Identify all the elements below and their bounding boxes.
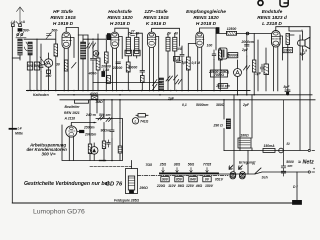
svg-text:240·m: 240·m xyxy=(85,113,96,117)
Gestrichelte text xyxy=(24,181,123,188)
svg-text:H 2018 D: H 2018 D xyxy=(110,21,131,27)
Erregung label xyxy=(239,161,256,165)
svg-text:RENS 1820: RENS 1820 xyxy=(107,15,133,21)
wire xyxy=(135,37,139,53)
minus terminal xyxy=(308,149,314,151)
choke drop xyxy=(247,151,249,175)
Si lamp xyxy=(279,148,284,153)
stage label Endstufe xyxy=(257,9,288,27)
wire xyxy=(264,64,269,75)
blob cap near T4 xyxy=(216,28,219,33)
wire xyxy=(299,52,307,56)
svg-text:Endstufe: Endstufe xyxy=(262,9,283,15)
wire xyxy=(211,70,228,77)
blob resistor xyxy=(107,34,110,40)
wire xyxy=(33,93,49,97)
wire xyxy=(285,90,290,92)
wire xyxy=(176,47,182,51)
antenna cap 500cm xyxy=(18,29,22,32)
wire xyxy=(111,119,113,161)
svg-text:500 cm: 500 cm xyxy=(99,113,111,117)
bus B xyxy=(58,94,312,96)
B+ feed wire xyxy=(216,33,272,35)
wire xyxy=(36,39,38,90)
switch arrow on x74 xyxy=(72,63,77,69)
resistor box horizontal xyxy=(138,114,145,117)
svg-text:Lumophon GD76: Lumophon GD76 xyxy=(33,209,85,216)
blob cap xyxy=(102,72,105,77)
svg-text:50000: 50000 xyxy=(228,54,238,58)
ground mark xyxy=(100,160,106,162)
mains minus line xyxy=(224,150,308,152)
wire xyxy=(260,64,264,72)
svg-text:77Ω5: 77Ω5 xyxy=(203,163,211,167)
cropped heading glyphs xyxy=(258,0,288,7)
border tick xyxy=(10,128,17,130)
wire xyxy=(89,92,99,96)
wire xyxy=(237,60,239,95)
filter caps 5000 xyxy=(281,100,285,176)
gang cap arrow xyxy=(39,57,47,65)
wire xyxy=(40,44,42,90)
wire xyxy=(168,34,175,91)
wire xyxy=(215,84,229,88)
wire xyxy=(241,40,254,52)
resistor xyxy=(186,57,190,70)
wire xyxy=(125,50,132,56)
wire xyxy=(106,118,112,122)
svg-text:7MΩ: 7MΩ xyxy=(95,100,103,104)
output transformer xyxy=(288,30,302,35)
speaker xyxy=(298,37,310,52)
wire xyxy=(48,53,50,90)
lamp line xyxy=(218,172,308,174)
svg-text:L4: L4 xyxy=(18,127,22,131)
caption xyxy=(33,209,85,216)
horizontal resistor w/ label xyxy=(75,100,89,103)
Netz label xyxy=(298,160,314,166)
label 500cm xyxy=(52,29,59,33)
svg-text:8µF: 8µF xyxy=(284,85,291,89)
wire xyxy=(286,142,289,146)
wire xyxy=(287,92,289,94)
svg-text:1000: 1000 xyxy=(284,48,292,52)
svg-text:Si: Si xyxy=(286,142,289,146)
wire xyxy=(174,57,179,61)
svg-text:100: 100 xyxy=(176,47,182,51)
svg-text:500·: 500· xyxy=(52,29,59,33)
wire xyxy=(119,123,121,147)
8uF cap xyxy=(284,85,291,89)
wire xyxy=(247,34,254,95)
wire xyxy=(112,66,123,70)
screen resistor xyxy=(65,60,68,71)
svg-text:38Ω: 38Ω xyxy=(174,163,181,167)
svg-text:RENS 1823 d: RENS 1823 d xyxy=(257,15,288,21)
svg-text:⊥A: ⊥A xyxy=(10,20,16,24)
svg-text:Empfangsgleiche: Empfangsgleiche xyxy=(186,9,226,15)
cap 20000 xyxy=(116,62,120,64)
svg-text:64V: 64V xyxy=(190,178,197,182)
circled driver triangle xyxy=(90,147,98,155)
svg-text:7Ω5: 7Ω5 xyxy=(146,163,153,167)
labels under busC xyxy=(182,103,250,107)
junction dots xyxy=(87,39,98,40)
switch arrows on box xyxy=(98,116,104,120)
junction dots xyxy=(27,90,288,101)
wire xyxy=(89,123,91,161)
cap 27 xyxy=(131,34,135,36)
wire xyxy=(10,20,26,24)
svg-text:5000cm: 5000cm xyxy=(196,103,208,107)
290 ohm resistor branch xyxy=(224,95,234,172)
svg-text:300 V=: 300 V= xyxy=(42,152,56,157)
switch arrows xyxy=(244,66,250,71)
svg-text:380Ω: 380Ω xyxy=(216,103,225,107)
power choke xyxy=(238,138,251,148)
wire xyxy=(56,63,60,67)
wire xyxy=(289,27,303,60)
svg-text:125V: 125V xyxy=(186,184,195,188)
svg-text:180Ω: 180Ω xyxy=(240,134,249,138)
padder xyxy=(39,62,43,72)
wire xyxy=(88,72,98,76)
resistor box xyxy=(253,60,256,72)
coil L2 xyxy=(28,42,32,55)
circled A meter 2 xyxy=(93,51,99,57)
svg-text:2000cm: 2000cm xyxy=(241,40,254,44)
1uF label xyxy=(168,97,175,101)
resistor to bus xyxy=(91,96,98,100)
wire xyxy=(262,176,268,180)
wire xyxy=(139,163,153,190)
wire xyxy=(255,72,262,76)
svg-text:1µF: 1µF xyxy=(255,72,262,76)
boxed label 50000 xyxy=(219,48,227,59)
svg-text:300: 300 xyxy=(27,64,33,68)
svg-text:290Ω: 290Ω xyxy=(139,186,149,190)
fuse xyxy=(263,148,275,152)
resistor 12500 xyxy=(227,31,237,35)
svg-text:Mitte: Mitte xyxy=(15,132,23,136)
grid leak cluster xyxy=(265,48,267,91)
svg-text:4000·: 4000· xyxy=(88,72,98,76)
svg-text:0V: 0V xyxy=(205,178,210,182)
svg-text:051V: 051V xyxy=(215,178,224,182)
wire xyxy=(102,141,105,149)
right verticals xyxy=(300,27,310,150)
wire xyxy=(114,199,139,203)
Bezileiter labels xyxy=(64,105,81,120)
wire xyxy=(127,66,138,70)
wire xyxy=(207,44,213,48)
cap on x141 xyxy=(140,71,144,73)
bottom border xyxy=(12,202,297,204)
svg-text:0,5 M: 0,5 M xyxy=(192,61,201,65)
svg-text:A 2118: A 2118 xyxy=(64,116,76,120)
wire xyxy=(219,48,221,90)
svg-text:290 Ω: 290 Ω xyxy=(213,124,224,128)
wire xyxy=(100,65,111,73)
wire xyxy=(93,143,95,147)
svg-text:7000Ω: 7000Ω xyxy=(214,73,225,77)
svg-text:2µF: 2µF xyxy=(242,103,250,107)
svg-text:RENS 1820: RENS 1820 xyxy=(193,15,219,21)
demod switch arrows xyxy=(176,80,182,85)
tube V1 xyxy=(62,27,78,90)
wire xyxy=(29,55,31,90)
wire xyxy=(287,45,289,91)
svg-text:85V: 85V xyxy=(176,178,183,182)
T3 cathode switch xyxy=(153,80,158,91)
bus C xyxy=(60,99,315,101)
svg-text:Gestrichelte Verbindungen nur: Gestrichelte Verbindungen nur bei xyxy=(24,181,109,187)
svg-text:150V: 150V xyxy=(205,184,214,188)
svg-text:86Ω: 86Ω xyxy=(178,184,185,188)
value boxes xyxy=(27,62,32,70)
wire xyxy=(228,53,238,58)
wire xyxy=(23,28,30,32)
svg-text:2500m: 2500m xyxy=(83,126,95,130)
IF transformer 1 xyxy=(126,37,130,53)
wire xyxy=(19,55,21,60)
wire xyxy=(284,48,292,52)
svg-text:500: 500 xyxy=(34,64,40,68)
wire xyxy=(127,32,139,36)
wire xyxy=(133,50,140,56)
antenna terminal xyxy=(19,24,22,27)
pilot lamps xyxy=(229,166,245,179)
wire xyxy=(240,134,249,138)
input vertical xyxy=(257,40,259,91)
svg-text:741Ω: 741Ω xyxy=(140,119,149,123)
wire xyxy=(92,41,94,90)
svg-text:Erregung]: Erregung] xyxy=(239,161,256,165)
svg-text:400Ω: 400Ω xyxy=(89,92,99,96)
wire xyxy=(47,70,51,73)
tube V6 xyxy=(66,123,96,161)
antenna xyxy=(16,7,24,24)
coupling coil T1 xyxy=(81,42,86,59)
boxed label 2000cm xyxy=(218,84,227,89)
wire xyxy=(227,27,237,31)
dashed feeder xyxy=(90,165,132,167)
avc line xyxy=(93,82,162,84)
wire xyxy=(16,37,26,39)
svg-text:46Ω: 46Ω xyxy=(195,184,203,188)
electrolytic blob xyxy=(293,200,302,204)
wire xyxy=(118,146,122,153)
wire xyxy=(226,119,230,129)
stage label 1ZF-Stufe xyxy=(143,9,169,27)
coil to bus xyxy=(159,78,163,91)
svg-text:K 1916 D: K 1916 D xyxy=(146,21,167,27)
svg-text:Bezileiter: Bezileiter xyxy=(65,105,81,109)
svg-text:L 2318 D: L 2318 D xyxy=(262,21,282,27)
trimmer cap xyxy=(46,32,52,39)
wire xyxy=(188,44,196,91)
wire xyxy=(105,35,107,90)
1uF cap top xyxy=(177,61,181,63)
tube V2 xyxy=(111,28,128,90)
wire xyxy=(93,154,95,160)
wave switch xyxy=(17,32,24,36)
grid stopper xyxy=(286,34,290,45)
wire xyxy=(15,127,23,136)
wire xyxy=(88,144,91,154)
wire xyxy=(107,140,111,147)
svg-text:110V: 110V xyxy=(168,184,176,188)
wire xyxy=(97,34,99,90)
stub wires to driver box xyxy=(90,100,120,123)
volume pot with arrows xyxy=(166,75,178,81)
svg-text:90Ωm: 90Ωm xyxy=(101,129,110,133)
svg-text:12500: 12500 xyxy=(227,27,237,31)
dash-dot link xyxy=(138,175,229,177)
svg-text:40000: 40000 xyxy=(127,66,138,70)
parts right of driver xyxy=(103,123,105,161)
svg-text:400: 400 xyxy=(45,74,52,78)
tube V5 xyxy=(272,27,311,91)
wire xyxy=(130,29,136,33)
Arbeitsspannung text xyxy=(27,142,68,156)
left border wire xyxy=(11,27,13,203)
main cathode bus xyxy=(27,90,251,92)
stage label HF Stufe xyxy=(50,9,76,27)
junction connector xyxy=(246,32,249,35)
wire xyxy=(208,70,230,77)
wire xyxy=(136,114,148,116)
wire xyxy=(87,35,89,90)
svg-text:220Ω: 220Ω xyxy=(156,184,166,188)
wire xyxy=(219,50,223,60)
circled A meter xyxy=(44,59,52,67)
wire xyxy=(192,61,201,65)
stage label Hochstufe xyxy=(107,9,133,27)
svg-text:≈ Netz: ≈ Netz xyxy=(298,160,314,166)
border stub xyxy=(12,57,20,59)
wire xyxy=(214,48,216,90)
band switch bus wire xyxy=(83,38,106,40)
wire xyxy=(34,62,39,70)
caps on x=246.8 xyxy=(245,34,249,57)
diode load parts xyxy=(212,50,216,60)
wire xyxy=(55,32,57,90)
svg-text:90V: 90V xyxy=(162,178,169,182)
demod parts xyxy=(180,53,184,60)
svg-text:150mA: 150mA xyxy=(263,144,275,148)
IF transformer 2 xyxy=(166,37,170,51)
wire xyxy=(173,37,177,51)
wire xyxy=(45,74,52,78)
wire xyxy=(263,144,275,148)
svg-text:Hochstufe: Hochstufe xyxy=(108,9,132,15)
earth terminal xyxy=(12,24,15,27)
svg-text:L: L xyxy=(134,119,136,123)
wire xyxy=(95,100,103,104)
svg-text:40: 40 xyxy=(173,32,178,36)
circled A right xyxy=(234,69,242,77)
svg-text:H 2018 D: H 2018 D xyxy=(196,21,217,27)
voltage selector xyxy=(156,163,224,189)
wire xyxy=(182,61,189,65)
svg-text:cm: cm xyxy=(288,164,293,168)
wire xyxy=(83,113,111,137)
wire xyxy=(140,119,149,123)
tuning cap C1 xyxy=(25,42,33,51)
svg-text:30: 30 xyxy=(56,63,60,67)
svg-text:GD 76: GD 76 xyxy=(106,182,124,188)
pilot lamps xyxy=(230,165,246,177)
svg-text:Feldspule 285Ω: Feldspule 285Ω xyxy=(114,199,139,203)
svg-text:REN 1921: REN 1921 xyxy=(64,111,80,115)
wire xyxy=(78,35,88,90)
electrolytic drop xyxy=(296,172,298,200)
wire xyxy=(131,161,133,169)
wire xyxy=(128,33,142,90)
resistor to bus xyxy=(107,76,111,84)
grid resistor R1 xyxy=(54,44,58,57)
svg-text:A: A xyxy=(22,20,26,24)
wire xyxy=(213,124,224,128)
wire xyxy=(313,167,315,171)
svg-text:+: + xyxy=(313,167,315,171)
svg-text:56Ω: 56Ω xyxy=(188,163,195,167)
wire xyxy=(101,129,110,133)
svg-text:25Ω: 25Ω xyxy=(159,163,167,167)
V5 extras xyxy=(283,48,293,53)
resistor under T1 tap xyxy=(126,62,130,72)
svg-text:0,1: 0,1 xyxy=(182,103,187,107)
svg-text:2µF: 2µF xyxy=(241,48,249,52)
svg-text:500·: 500· xyxy=(23,28,30,32)
driver parts xyxy=(80,130,84,132)
wire xyxy=(24,38,55,40)
svg-text:H 1919 D: H 1919 D xyxy=(53,21,74,27)
svg-text:100: 100 xyxy=(207,44,213,48)
svg-text:RENS 1915: RENS 1915 xyxy=(50,15,76,21)
svg-text:4µF: 4µF xyxy=(299,52,307,56)
wire xyxy=(166,32,178,36)
svg-text:20000: 20000 xyxy=(112,66,123,70)
Feldspule box xyxy=(126,169,138,194)
anode resistor xyxy=(105,52,109,63)
Df label xyxy=(293,185,298,189)
svg-text:Kathoden: Kathoden xyxy=(33,93,49,97)
switch Sch xyxy=(255,168,261,174)
resistor box xyxy=(141,76,145,83)
svg-text:RENS 1915: RENS 1915 xyxy=(143,15,169,21)
svg-text:HF Stufe: HF Stufe xyxy=(53,9,73,15)
wire xyxy=(110,130,114,139)
svg-text:0,1: 0,1 xyxy=(174,57,179,61)
tube V3 xyxy=(148,28,180,90)
wire xyxy=(93,122,112,162)
small cap xyxy=(91,57,96,63)
labels xyxy=(228,54,238,58)
wire xyxy=(181,46,183,90)
wire xyxy=(286,160,294,168)
plus terminal xyxy=(308,171,314,173)
svg-text:1ZF–Stufe: 1ZF–Stufe xyxy=(144,9,168,15)
svg-text:Sch: Sch xyxy=(262,176,268,180)
antenna coil xyxy=(18,39,22,55)
driver box xyxy=(62,119,123,161)
boxed label 0,1 xyxy=(174,57,180,62)
band switch arrows xyxy=(87,43,96,48)
circled L xyxy=(132,118,138,124)
power verticals xyxy=(240,95,252,151)
